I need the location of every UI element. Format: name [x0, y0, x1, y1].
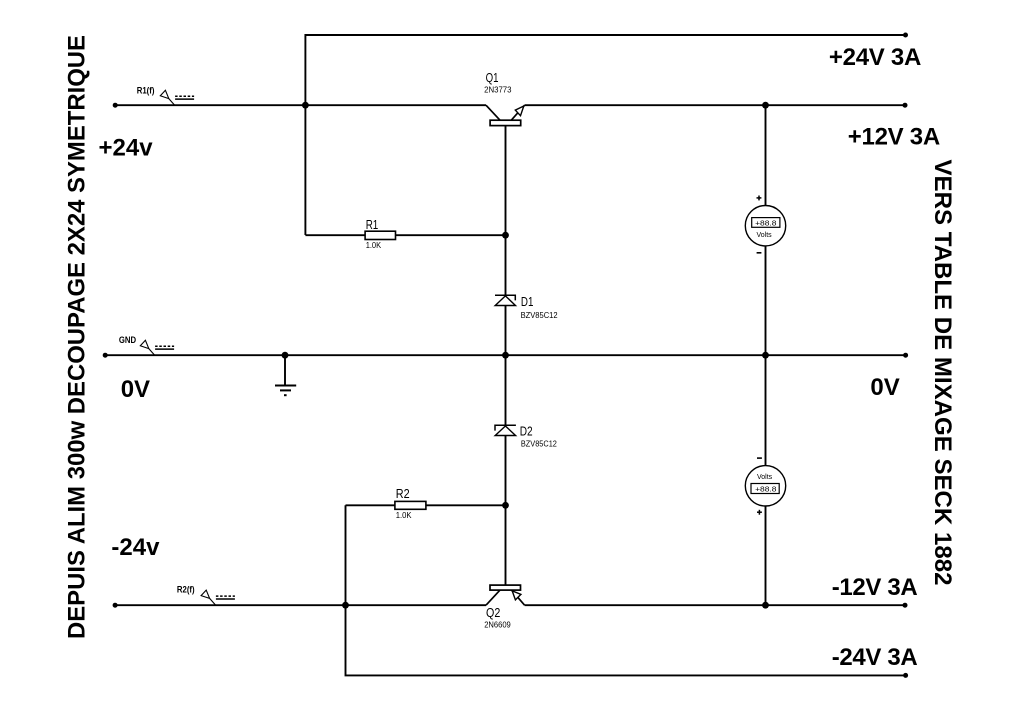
svg-text:VERS TABLE DE MIXAGE SECK 1882: VERS TABLE DE MIXAGE SECK 1882 [929, 160, 956, 586]
svg-text:Q1: Q1 [486, 71, 499, 85]
svg-text:+88.8: +88.8 [755, 221, 777, 228]
junction +12V at meter branch [762, 102, 769, 109]
resistor R2 [395, 501, 426, 509]
svg-text:R2: R2 [396, 487, 410, 501]
svg-text:Volts: Volts [757, 232, 773, 239]
junction Q2 base / R2 [502, 502, 509, 509]
zener diode D1 [495, 295, 516, 305]
resistor R1 [365, 231, 395, 239]
svg-text:BZV85C12: BZV85C12 [521, 311, 559, 320]
svg-text:R1: R1 [366, 218, 379, 232]
junction -24v at bottom rail branch [342, 602, 349, 609]
voltmeter M1 [745, 196, 785, 253]
terminal +24v input [113, 103, 118, 108]
svg-text:0V: 0V [121, 376, 150, 403]
svg-text:Volts: Volts [757, 474, 773, 481]
terminal 0V output [903, 353, 908, 358]
wire Q1 emitter to +12V terminal [525, 104, 905, 106]
wire -24V bottom rail [346, 505, 906, 675]
svg-text:2N6609: 2N6609 [484, 621, 511, 630]
junction 0V at meter branch [762, 352, 769, 359]
svg-text:-24V 3A: -24V 3A [832, 644, 918, 671]
svg-text:D1: D1 [521, 295, 534, 309]
wire R2 left lead [346, 504, 395, 506]
junction Q1 base / R1 [502, 232, 509, 239]
net flag R2(f) [201, 590, 235, 605]
wire meter branch upper [765, 105, 767, 206]
svg-text:D2: D2 [520, 425, 533, 439]
svg-text:-24v: -24v [111, 534, 160, 561]
wire R2 right lead [426, 504, 506, 506]
svg-text:R1(f): R1(f) [137, 85, 155, 95]
svg-text:BZV85C12: BZV85C12 [521, 439, 557, 448]
wire D1 anode to D2 cathode [505, 306, 507, 426]
terminal 0V input [103, 353, 108, 358]
net flag GND [140, 340, 174, 355]
svg-text:1.0K: 1.0K [366, 241, 382, 250]
wire R1 right lead [396, 234, 506, 236]
wire R1 left lead [305, 234, 365, 236]
wire +24V top rail [305, 35, 905, 235]
wire Q1 base to D1 cathode [505, 126, 507, 296]
zener diode D2 [495, 425, 516, 435]
junction 0V at ground [282, 352, 289, 359]
wire D2 anode to Q2 base [505, 436, 507, 586]
wire +24v input to Q1 collector [115, 104, 486, 106]
svg-text:DEPUIS ALIM 300w DECOUPAGE 2X2: DEPUIS ALIM 300w DECOUPAGE 2X24 SYMETRIQ… [64, 35, 91, 639]
terminal +12V 3A output [903, 103, 908, 108]
svg-text:+24v: +24v [99, 134, 154, 161]
voltmeter M2 [745, 458, 785, 515]
wire meter branch middle [765, 246, 767, 467]
ground [275, 386, 296, 396]
wire -24v input to Q2 collector [115, 604, 486, 606]
junction +24v at top rail branch [302, 102, 309, 109]
terminal +24V 3A output [903, 33, 908, 38]
svg-text:+88.8: +88.8 [755, 487, 777, 494]
svg-text:GND: GND [119, 335, 136, 345]
terminal -12V 3A output [903, 603, 908, 608]
wire meter branch lower [765, 505, 767, 605]
transistor Q2 [486, 585, 525, 605]
svg-text:2N3773: 2N3773 [484, 85, 512, 94]
svg-text:-12V 3A: -12V 3A [832, 574, 918, 601]
svg-text:0V: 0V [870, 374, 899, 401]
junction 0V at diode chain [502, 352, 509, 359]
transistor Q1 [486, 105, 525, 125]
terminal -24v input [113, 603, 118, 608]
net flag R1(f) [160, 90, 194, 105]
svg-text:1.0K: 1.0K [396, 511, 412, 520]
terminal -24V 3A output [903, 673, 908, 678]
svg-text:Q2: Q2 [486, 606, 500, 620]
wire ground stem [284, 355, 286, 385]
svg-text:R2(f): R2(f) [177, 585, 195, 595]
junction -12V at meter branch [762, 602, 769, 609]
svg-text:+24V 3A: +24V 3A [829, 44, 921, 71]
svg-text:+12V 3A: +12V 3A [848, 123, 940, 150]
wire Q2 emitter to -12V terminal [525, 604, 905, 606]
wire 0V rail [105, 354, 905, 356]
